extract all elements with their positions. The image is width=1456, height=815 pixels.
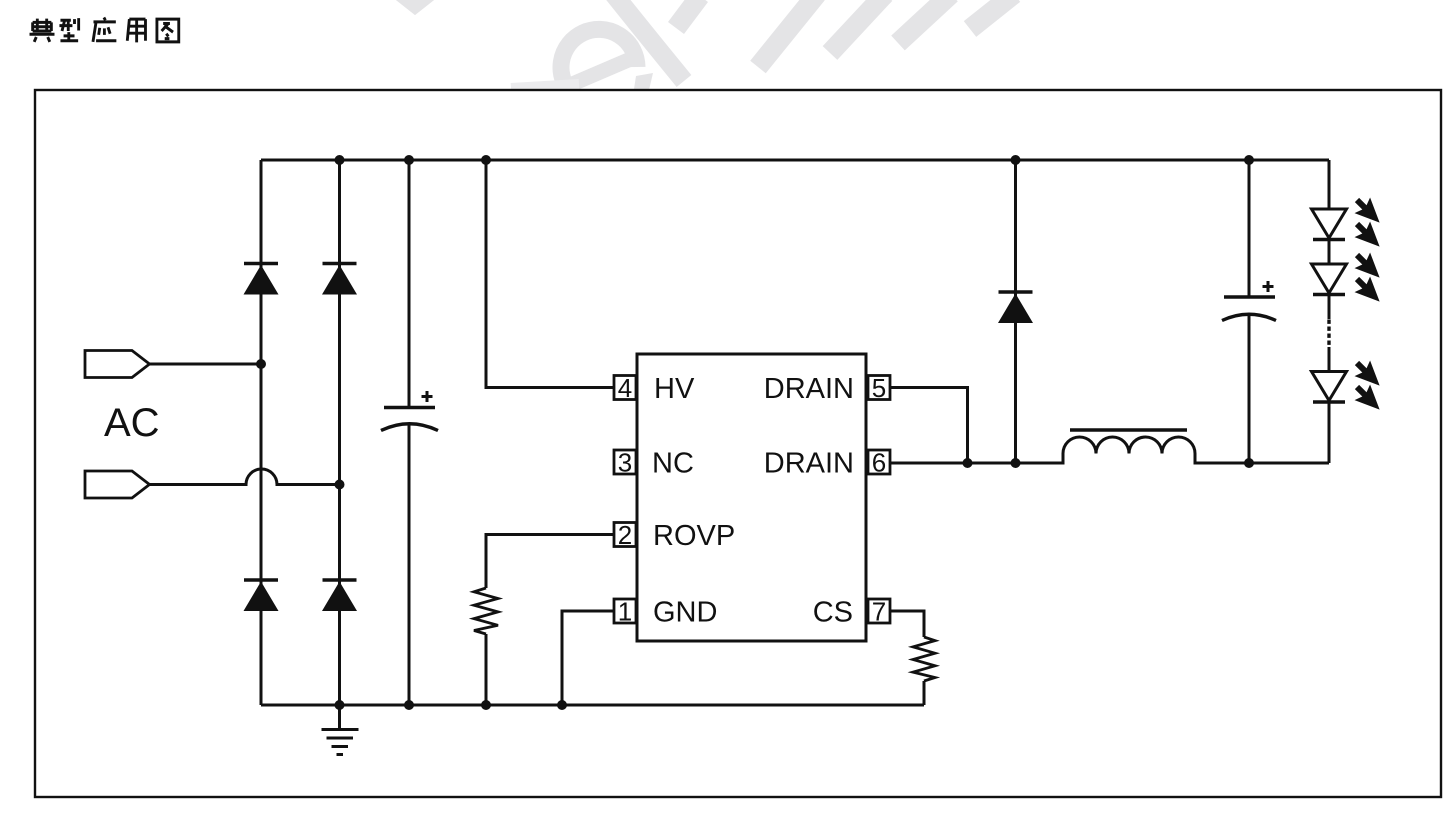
svg-text:4: 4 <box>618 373 632 403</box>
svg-text:CS: CS <box>813 597 853 629</box>
svg-text:NC: NC <box>652 448 694 480</box>
svg-text:AC: AC <box>104 401 160 445</box>
svg-text:5: 5 <box>872 373 886 403</box>
svg-text:1: 1 <box>618 597 632 627</box>
svg-text:DRAIN: DRAIN <box>764 373 854 405</box>
svg-text:HV: HV <box>654 373 695 405</box>
svg-text:7: 7 <box>872 597 886 627</box>
svg-text:3: 3 <box>618 448 632 478</box>
svg-text:6: 6 <box>872 448 886 478</box>
svg-text:2: 2 <box>618 520 632 550</box>
svg-text:ROVP: ROVP <box>653 520 735 552</box>
svg-text:DRAIN: DRAIN <box>764 448 854 480</box>
svg-text:GND: GND <box>653 597 717 629</box>
